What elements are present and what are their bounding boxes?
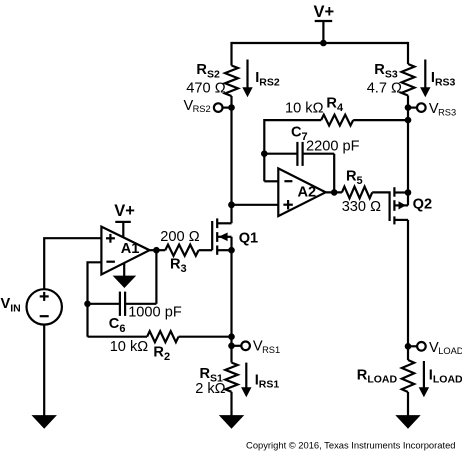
node A2 input tap junction dot (228, 202, 235, 209)
capacitor C6 (120, 292, 125, 316)
wire R5 to Q2 gate (372, 192, 389, 221)
node V+ rail junction dot (320, 40, 327, 47)
current arrow IRS1 (241, 363, 251, 398)
resistor RS2 (225, 66, 238, 97)
wire C6 left (88, 303, 120, 305)
ground A1 (113, 276, 137, 288)
wire R3 to Q1 gate (199, 249, 213, 251)
op-amp A2 (278, 168, 325, 216)
node A2 output junction dot (331, 189, 338, 196)
wire right branch top to RS3 (407, 42, 409, 64)
resistor RLOAD (402, 360, 414, 392)
V+ power symbol top (314, 3, 335, 43)
resistor R3 (165, 245, 198, 256)
wire A1 inverting input (88, 262, 102, 336)
wire A1 output (150, 249, 166, 251)
node Q2 drain junction dot (405, 189, 412, 196)
current arrow IRS2 (242, 60, 252, 98)
wire A1 negative supply (123, 263, 125, 277)
wire VIN to ground (43, 325, 45, 416)
resistor R2 (147, 331, 178, 342)
svg-text:10 kΩ: 10 kΩ (110, 339, 149, 355)
wire RLOAD to ground (407, 392, 409, 416)
source VIN (27, 289, 62, 324)
terminal VRS3 open circle (417, 103, 426, 112)
wire A2 output (326, 191, 342, 193)
node Q1 source junction dot (228, 247, 235, 254)
wire Q2 source down to VLOAD (407, 220, 409, 346)
svg-text:1000 pF: 1000 pF (128, 305, 182, 321)
node A1 output junction dot (153, 247, 160, 254)
node VRS1 junction dot (228, 343, 235, 350)
wire R4 left (264, 119, 321, 121)
V+ power symbol A1 (114, 202, 135, 238)
node Q1 drain tap junction dot (228, 202, 235, 209)
ground RS1 (219, 415, 244, 429)
wire RS3 to VRS3 node (407, 96, 409, 121)
wire feedback vertical (263, 119, 265, 181)
wire top rail (232, 42, 409, 44)
ground VIN (32, 415, 57, 429)
svg-text:Copyright © 2016, Texas Instru: Copyright © 2016, Texas Instruments Inco… (246, 439, 455, 450)
wire C6 right (125, 303, 156, 305)
wire left branch VRS2 to Q1 (230, 108, 232, 224)
wire R2 left (88, 336, 148, 338)
wire R2 right (179, 336, 232, 338)
current arrow ILOAD (419, 361, 429, 397)
wire VRS3 stub (408, 106, 417, 108)
node VLOAD junction dot (405, 343, 412, 350)
wire RS1 to ground (230, 392, 232, 416)
svg-text:2200 pF: 2200 pF (306, 139, 360, 155)
svg-text:2 kΩ: 2 kΩ (195, 381, 225, 397)
wire C6 up to A1 output (155, 250, 157, 304)
svg-text:Q1: Q1 (239, 230, 258, 246)
current arrow IRS3 (420, 60, 430, 98)
wire VIN to A1 positive input (44, 238, 101, 289)
wire VLOAD to RLOAD (407, 346, 409, 360)
svg-text:V+: V+ (114, 202, 135, 220)
svg-text:Q2: Q2 (413, 197, 432, 213)
svg-text:RS1: RS1 (262, 345, 280, 355)
wire A2 non-inverting input (232, 204, 279, 206)
transistor Q2 (394, 187, 408, 224)
svg-text:LOAD: LOAD (438, 346, 462, 356)
svg-text:4.7 Ω: 4.7 Ω (367, 81, 402, 97)
svg-text:RS2: RS2 (193, 104, 211, 114)
resistor R4 (321, 115, 353, 126)
op-amp A1 (101, 227, 149, 275)
svg-text:10 kΩ: 10 kΩ (285, 101, 324, 117)
transistor Q1 (212, 218, 231, 254)
wire Q1 source down (230, 250, 232, 346)
node R2 junction dot (228, 333, 235, 340)
wire left branch top to RS2 (230, 42, 232, 66)
resistor RS3 (402, 64, 415, 96)
terminal VRS2 open circle (214, 103, 223, 112)
wire VRS1 stub (232, 345, 242, 347)
wire VRS1 to RS1 (230, 346, 232, 363)
svg-text:470 Ω: 470 Ω (186, 81, 225, 97)
ground RLOAD (395, 415, 420, 429)
svg-text:A1: A1 (121, 241, 140, 257)
wire VRS2 stub (223, 106, 232, 108)
svg-text:RS3: RS3 (438, 108, 456, 118)
node C6 junction dot (84, 301, 91, 308)
resistor R5 (342, 187, 372, 199)
terminal VRS1 open circle (241, 342, 250, 351)
wire C7 left (264, 153, 297, 155)
terminal VLOAD open circle (417, 342, 426, 351)
wire A2 inverting input (264, 180, 278, 182)
capacitor C7 (297, 142, 302, 166)
wire R4 right (353, 119, 408, 121)
node VRS2 junction dot (228, 104, 235, 111)
node C7 junction dot (261, 150, 268, 157)
wire RS2 to VRS2 node (230, 96, 232, 108)
svg-text:200 Ω: 200 Ω (160, 229, 199, 245)
resistor RS1 (225, 363, 237, 392)
wire C7 down to A2 output (333, 154, 335, 193)
svg-text:330 Ω: 330 Ω (342, 199, 381, 215)
wire VLOAD stub (408, 345, 417, 347)
wire C7 right (303, 153, 335, 155)
svg-text:A2: A2 (298, 185, 317, 201)
node R4 junction dot (405, 117, 412, 124)
svg-text:V+: V+ (314, 3, 335, 21)
node VRS3 junction dot (405, 104, 412, 111)
wire right branch R4 node to Q2 (407, 120, 409, 192)
